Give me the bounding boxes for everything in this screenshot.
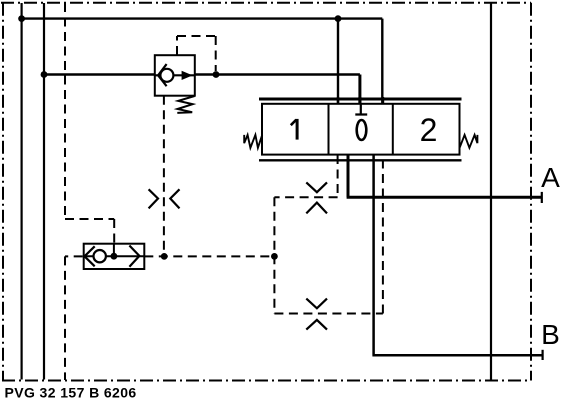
svg-text:PVG 32 157 B 6206: PVG 32 157 B 6206 <box>5 385 137 400</box>
svg-text:B: B <box>541 319 560 350</box>
svg-text:2: 2 <box>420 112 438 148</box>
svg-text:A: A <box>541 162 560 193</box>
